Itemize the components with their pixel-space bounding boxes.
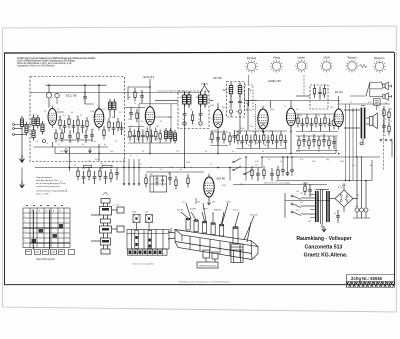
svg-text:kHz: kHz xyxy=(196,97,199,99)
svg-text:100: 100 xyxy=(312,161,315,163)
svg-text:12: 12 xyxy=(190,167,192,169)
svg-text:Lichtnetz-Empf. Gegenkopplung: Lichtnetz-Empf. Gegenkopplung xyxy=(36,190,68,193)
svg-text:5n: 5n xyxy=(334,213,336,215)
svg-text:6,3V: 6,3V xyxy=(255,161,259,163)
svg-text:9k: 9k xyxy=(150,167,152,169)
svg-text:5n: 5n xyxy=(318,115,320,117)
svg-text:1M: 1M xyxy=(384,119,387,121)
svg-text:3n: 3n xyxy=(82,144,84,146)
svg-text:TA: TA xyxy=(385,102,388,105)
svg-text:1M: 1M xyxy=(150,174,153,176)
svg-text:6,3V: 6,3V xyxy=(60,151,64,153)
svg-text:c: c xyxy=(136,155,137,157)
svg-text:Werte der Widerstände in Ohm,: Werte der Widerstände in Ohm, der Konden… xyxy=(17,62,72,65)
svg-text:10n: 10n xyxy=(100,168,103,170)
svg-text:Tafel UKW geprüft: Tafel UKW geprüft xyxy=(36,258,55,261)
svg-text:1k: 1k xyxy=(112,161,114,163)
svg-text:230V: 230V xyxy=(222,185,227,187)
svg-text:250: 250 xyxy=(82,168,85,170)
svg-text:0,3M: 0,3M xyxy=(333,116,338,118)
svg-text:1k: 1k xyxy=(156,139,158,141)
svg-text:0,1: 0,1 xyxy=(160,169,163,171)
svg-text:1k: 1k xyxy=(59,116,61,118)
svg-text:47k: 47k xyxy=(136,139,139,141)
svg-text:0,1: 0,1 xyxy=(127,137,130,139)
svg-text:50: 50 xyxy=(119,112,121,114)
svg-text:EM 80: EM 80 xyxy=(217,177,226,181)
svg-text:7k: 7k xyxy=(350,102,352,104)
svg-text:10k: 10k xyxy=(250,126,253,128)
svg-text:460: 460 xyxy=(228,89,231,91)
svg-text:4n: 4n xyxy=(236,111,238,113)
svg-text:250V: 250V xyxy=(270,109,275,111)
svg-text:2k: 2k xyxy=(390,121,392,123)
svg-text:25: 25 xyxy=(210,164,212,166)
svg-text:110: 110 xyxy=(296,191,299,193)
svg-text:2,2k: 2,2k xyxy=(95,159,98,161)
svg-text:U5: U5 xyxy=(59,211,61,213)
svg-text:22: 22 xyxy=(80,115,82,117)
svg-text:Sämtliche Spannungen des Gerät: Sämtliche Spannungen des Gerätes wurden … xyxy=(17,57,97,60)
svg-text:ECH 81: ECH 81 xyxy=(144,75,155,79)
svg-text:12k: 12k xyxy=(168,117,171,119)
svg-text:U2: U2 xyxy=(38,211,40,213)
svg-text:47: 47 xyxy=(306,123,308,125)
svg-text:10n: 10n xyxy=(313,93,316,95)
svg-text:50µ: 50µ xyxy=(355,206,359,208)
svg-text:1M: 1M xyxy=(299,115,302,117)
svg-text:125: 125 xyxy=(255,165,258,167)
svg-text:ECC85: ECC85 xyxy=(177,210,183,212)
svg-text:100: 100 xyxy=(110,151,113,153)
svg-text:5k: 5k xyxy=(262,151,264,153)
svg-text:0,1: 0,1 xyxy=(130,126,133,128)
svg-text:50: 50 xyxy=(76,116,78,118)
svg-text:25k: 25k xyxy=(156,126,159,128)
svg-text:bei Schaltung Ausgang 4 Ohm: bei Schaltung Ausgang 4 Ohm xyxy=(36,182,66,185)
svg-text:0,1: 0,1 xyxy=(268,159,271,161)
svg-text:C75: C75 xyxy=(356,195,359,197)
svg-text:Ug ca. 7 Volt: Ug ca. 7 Volt xyxy=(36,193,49,196)
svg-text:2x: 2x xyxy=(280,161,282,163)
svg-text:Raumklang - Vollsuper: Raumklang - Vollsuper xyxy=(296,236,351,242)
svg-text:0,5M: 0,5M xyxy=(240,128,244,130)
svg-text:18: 18 xyxy=(46,143,48,145)
svg-text:c: c xyxy=(25,226,26,228)
svg-text:200V: 200V xyxy=(210,105,215,107)
svg-text:0,1: 0,1 xyxy=(232,151,235,153)
svg-text:10: 10 xyxy=(140,164,142,166)
svg-text:EL84: EL84 xyxy=(233,210,237,212)
svg-text:e: e xyxy=(25,236,26,238)
svg-text:EL 84: EL 84 xyxy=(335,90,343,94)
svg-text:EABC80: EABC80 xyxy=(214,209,221,212)
svg-text:ca. 1,5V: ca. 1,5V xyxy=(113,205,120,207)
svg-text:ZF1: ZF1 xyxy=(197,202,200,204)
svg-text:5p: 5p xyxy=(180,169,182,171)
svg-text:Chassis von unten gesehen: Chassis von unten gesehen xyxy=(132,262,154,265)
svg-text:1,2: 1,2 xyxy=(284,106,287,108)
svg-text:20: 20 xyxy=(58,144,60,146)
svg-text:2n: 2n xyxy=(322,123,324,125)
svg-text:Lautst.: Lautst. xyxy=(297,55,305,59)
svg-text:25: 25 xyxy=(88,161,90,163)
svg-text:6,3: 6,3 xyxy=(33,114,36,116)
svg-text:a: a xyxy=(124,155,125,157)
svg-text:Gegenkopplung: Gegenkopplung xyxy=(36,177,52,179)
svg-text:Osz.: Osz. xyxy=(182,202,186,204)
svg-text:8k: 8k xyxy=(314,121,316,123)
svg-text:0,5-2m Litze (Zimmerantenne): 0,5-2m Litze (Zimmerantenne) xyxy=(157,90,185,93)
svg-text:125: 125 xyxy=(300,193,303,195)
svg-text:25: 25 xyxy=(240,143,242,145)
svg-text:62: 62 xyxy=(246,109,248,111)
svg-text:Ein/Aus: Ein/Aus xyxy=(247,56,257,60)
svg-text:85: 85 xyxy=(142,151,144,153)
svg-text:0,5M: 0,5M xyxy=(186,162,190,164)
svg-text:b: b xyxy=(130,155,131,157)
svg-text:TB: TB xyxy=(390,109,393,111)
svg-text:an den mit Pfeil bezeichneten: an den mit Pfeil bezeichneten Punkten. A… xyxy=(17,59,75,62)
svg-text:30: 30 xyxy=(44,111,46,113)
svg-text:40: 40 xyxy=(71,112,73,114)
svg-text:50: 50 xyxy=(256,143,258,145)
svg-text:1,5: 1,5 xyxy=(70,141,73,143)
svg-text:E250: E250 xyxy=(342,185,346,187)
svg-text:25k: 25k xyxy=(322,95,325,97)
svg-text:47: 47 xyxy=(115,141,117,143)
svg-text:6,3: 6,3 xyxy=(352,165,355,167)
svg-text:Netzschalter am Lautst.-Regler: Netzschalter am Lautst.-Regler xyxy=(264,182,290,185)
svg-text:225V: 225V xyxy=(296,151,301,153)
svg-text:Tastatur: Tastatur xyxy=(347,55,357,59)
svg-text:2k: 2k xyxy=(92,129,94,131)
svg-text:über Anzapfung 3 Ohm: über Anzapfung 3 Ohm xyxy=(36,179,59,182)
svg-text:Graetz KG.Altena.: Graetz KG.Altena. xyxy=(304,252,348,258)
svg-text:U3: U3 xyxy=(45,211,47,213)
svg-text:0,5: 0,5 xyxy=(168,173,171,175)
svg-text:4,7k: 4,7k xyxy=(300,159,303,161)
svg-text:4k: 4k xyxy=(280,145,282,147)
svg-text:90: 90 xyxy=(272,143,274,145)
svg-text:8k: 8k xyxy=(112,117,114,119)
svg-text:Klang: Klang xyxy=(273,55,280,59)
svg-text:90V: 90V xyxy=(128,97,132,99)
svg-text:2n: 2n xyxy=(146,137,148,139)
svg-text:350V: 350V xyxy=(340,161,345,163)
svg-text:10k: 10k xyxy=(236,131,239,133)
svg-text:1k: 1k xyxy=(224,139,226,141)
svg-text:Angegebene Werte bei UKW-Betri: Angegebene Werte bei UKW-Betrieb. xyxy=(17,65,55,68)
svg-text:8n: 8n xyxy=(248,145,250,147)
svg-text:15: 15 xyxy=(128,119,130,121)
svg-text:5n: 5n xyxy=(141,121,143,123)
svg-text:8p: 8p xyxy=(173,139,175,141)
svg-text:d: d xyxy=(25,231,26,233)
svg-text:16: 16 xyxy=(330,121,332,123)
svg-text:4: 4 xyxy=(378,107,379,109)
svg-text:LW: LW xyxy=(145,212,148,214)
svg-text:50n: 50n xyxy=(216,141,219,143)
svg-text:50µ: 50µ xyxy=(326,159,329,161)
svg-text:5p: 5p xyxy=(36,141,38,143)
svg-text:30: 30 xyxy=(160,121,162,123)
svg-text:Ratio: Ratio xyxy=(226,201,230,204)
svg-text:9p: 9p xyxy=(104,144,106,146)
svg-text:Canzonetta 513: Canzonetta 513 xyxy=(305,244,343,250)
svg-text:170V: 170V xyxy=(90,111,95,113)
svg-text:2n: 2n xyxy=(103,109,105,111)
svg-text:5k: 5k xyxy=(182,119,184,121)
svg-text:0,5M: 0,5M xyxy=(253,131,258,133)
svg-text:1n: 1n xyxy=(63,115,65,117)
svg-text:30: 30 xyxy=(74,165,76,167)
svg-text:85V: 85V xyxy=(222,107,226,109)
svg-text:U4: U4 xyxy=(52,211,54,213)
svg-text:0,3: 0,3 xyxy=(296,109,299,111)
svg-text:f: f xyxy=(25,241,26,243)
svg-text:B250: B250 xyxy=(338,187,342,189)
svg-text:U1: U1 xyxy=(31,211,33,213)
svg-text:EABC 80: EABC 80 xyxy=(269,79,282,83)
svg-text:AZ: AZ xyxy=(370,164,373,167)
svg-text:240: 240 xyxy=(308,221,311,223)
svg-text:60: 60 xyxy=(94,141,96,143)
svg-text:EF89: EF89 xyxy=(203,209,208,211)
svg-text:60: 60 xyxy=(384,135,386,137)
svg-text:Abstimm.: Abstimm. xyxy=(374,56,385,60)
svg-text:b: b xyxy=(25,221,26,223)
svg-text:2x350V: 2x350V xyxy=(302,183,309,185)
svg-text:5M: 5M xyxy=(298,121,301,123)
svg-text:Netztrafo: Netztrafo xyxy=(250,214,258,217)
svg-text:UKW: UKW xyxy=(132,212,136,214)
svg-text:150: 150 xyxy=(300,202,303,204)
svg-text:25: 25 xyxy=(165,137,167,139)
svg-text:47: 47 xyxy=(318,151,320,153)
svg-text:NIEDERFREQUENZ: NIEDERFREQUENZ xyxy=(199,265,217,267)
svg-text:und bei Klang gemessen: und bei Klang gemessen xyxy=(36,186,61,188)
svg-text:12: 12 xyxy=(57,109,59,111)
svg-text:ZF2: ZF2 xyxy=(212,202,215,204)
svg-text:5,2k: 5,2k xyxy=(368,102,371,104)
svg-text:2k: 2k xyxy=(134,103,136,105)
svg-text:12k: 12k xyxy=(176,151,179,153)
svg-text:460: 460 xyxy=(180,97,183,99)
svg-text:250: 250 xyxy=(330,107,333,109)
svg-text:220: 220 xyxy=(296,210,299,212)
svg-text:50k: 50k xyxy=(270,131,273,133)
svg-text:Zchg Nr.: 60046: Zchg Nr.: 60046 xyxy=(351,276,383,281)
svg-text:UKW: UKW xyxy=(323,55,330,59)
svg-text:V: V xyxy=(345,107,347,109)
svg-text:ECC 85: ECC 85 xyxy=(66,93,77,97)
svg-text:100: 100 xyxy=(208,139,211,141)
svg-text:a: a xyxy=(25,216,26,218)
svg-text:47n: 47n xyxy=(100,163,103,165)
svg-text:EF 89: EF 89 xyxy=(214,76,222,80)
svg-text:100: 100 xyxy=(214,130,217,132)
svg-text:Nachdruck, auch auszugsweise,: Nachdruck, auch auszugsweise, nur mit Ge… xyxy=(179,281,230,284)
svg-text:ECH81: ECH81 xyxy=(190,209,196,211)
svg-text:2M: 2M xyxy=(264,145,267,147)
svg-text:5k: 5k xyxy=(198,119,200,121)
svg-text:5k: 5k xyxy=(190,109,192,111)
svg-text:60: 60 xyxy=(205,151,207,153)
svg-text:7k: 7k xyxy=(352,111,354,113)
